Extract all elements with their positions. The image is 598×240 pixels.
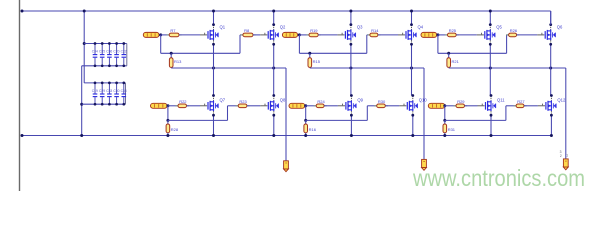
wire top bus to Q5 drain [489, 11, 491, 25]
transistor Q4 [398, 23, 424, 45]
wire R31 to bottom bus [444, 133, 446, 136]
svg-text:R13: R13 [174, 59, 182, 64]
resistor R29 [453, 104, 467, 108]
wire gate link A [299, 52, 366, 54]
svg-text:Q9: Q9 [357, 98, 363, 103]
capacitor C19 [92, 82, 98, 106]
svg-text:R22: R22 [179, 99, 187, 104]
inductor L1 [143, 32, 159, 37]
wire output drop 3 [565, 68, 567, 159]
inductor L3 [421, 32, 437, 37]
node L5 output junction [304, 104, 307, 107]
wire R7 to Q1 gate [179, 34, 200, 36]
resistor R21 [447, 58, 451, 68]
node top bus left end [21, 10, 24, 13]
svg-text:R16: R16 [309, 127, 317, 132]
node Q9 source on bus [350, 134, 353, 137]
wire gate link up-leg [506, 35, 508, 53]
transistor Q12 [538, 94, 566, 117]
wire cap group1 right side [126, 44, 128, 66]
svg-text:R26: R26 [510, 28, 518, 33]
svg-text:R30: R30 [378, 99, 386, 104]
wire Q10 source to bus [412, 115, 414, 135]
node Q2 drain on bus [272, 10, 275, 13]
node link tap [166, 119, 169, 122]
wire R29 to Q11 gate [465, 105, 478, 107]
capacitor C36 [106, 42, 112, 67]
wire tap stub [448, 53, 450, 57]
svg-text:Q3: Q3 [357, 24, 363, 29]
wire gate link [168, 119, 228, 121]
svg-text:R7: R7 [170, 28, 176, 33]
wire gate link up-leg [227, 106, 229, 121]
resistor R25 [445, 33, 459, 37]
wire Q7 source to bus [213, 115, 215, 135]
wire cap-bank left drop [81, 66, 83, 136]
wire Q9 source to bus [350, 115, 352, 135]
node Q11 source on bus [490, 134, 493, 137]
wire top bus [22, 10, 551, 12]
svg-text:2: 2 [560, 154, 562, 158]
svg-text:Q6: Q6 [557, 24, 563, 29]
wire gate link up-leg [366, 106, 368, 121]
sheet border line [19, 0, 21, 191]
wire gate link [445, 119, 506, 121]
svg-text:R23: R23 [239, 99, 247, 104]
svg-text:R28: R28 [171, 127, 179, 132]
wire gate link A [438, 52, 507, 54]
wire R28 to bottom bus [167, 133, 169, 136]
connector J2 [422, 159, 427, 170]
wire corner to R27 [506, 105, 516, 107]
wire Q8 source to bus [273, 115, 275, 135]
transistor Q8 [260, 94, 286, 117]
wire node to R24 [306, 105, 317, 107]
svg-text:R21: R21 [452, 59, 460, 64]
resistor R8 [240, 33, 255, 37]
node Q3 drain on bus [349, 10, 352, 13]
node Q3 source on rail [349, 67, 352, 70]
wire cap-bank feed from top bus [83, 11, 85, 83]
svg-text:R14: R14 [371, 28, 379, 33]
resistor R23 [236, 104, 250, 108]
wire node to R7 [161, 34, 170, 36]
node gate-source resistor tap [170, 52, 173, 55]
node bottom bus left end [21, 134, 24, 137]
wire source rail B [310, 67, 424, 69]
resistor R31 [443, 124, 447, 133]
wire cap group2 bottom rail [82, 103, 126, 105]
svg-text:C29: C29 [99, 89, 105, 93]
wire Q5 source down to lower stage [489, 44, 491, 95]
node L6 output junction [443, 104, 446, 107]
node Q1 source on rail [212, 67, 215, 70]
transistor Q5 [477, 23, 503, 45]
node L1 output junction [159, 33, 162, 36]
wire cap group2 top rail [84, 82, 125, 84]
wire gate link up-leg [505, 106, 507, 121]
svg-text:www.cntronics.com: www.cntronics.com [412, 165, 585, 191]
resistor R26 [506, 33, 519, 37]
svg-text:C22: C22 [121, 50, 127, 54]
svg-text:C35: C35 [99, 50, 105, 54]
wire corner to R26 [507, 34, 509, 36]
wire Q6 source down to lower stage [550, 44, 552, 95]
svg-text:C20: C20 [113, 50, 119, 54]
wire gate link A [161, 52, 240, 54]
svg-text:Q4: Q4 [418, 24, 424, 29]
wire node to R29 [445, 105, 456, 107]
svg-text:C36: C36 [106, 50, 112, 54]
node Q8 source on bus [272, 134, 275, 137]
svg-text:R31: R31 [448, 127, 456, 132]
svg-text:1: 1 [566, 154, 568, 158]
capacitor C22 [121, 42, 127, 67]
transistor Q11 [478, 94, 506, 117]
wire R27 to Q12 gate [524, 105, 538, 107]
node cap-bank top-rail tap [83, 42, 86, 45]
wire top bus to Q2 drain [273, 11, 275, 25]
capacitor C30 [113, 82, 119, 106]
wire link to R28 [167, 120, 169, 124]
capacitor C38 [121, 82, 127, 106]
wire node to R19 [299, 34, 309, 36]
node Q4 source on rail [410, 67, 413, 70]
capacitor C20 [113, 42, 119, 67]
wire node to R22 [168, 105, 178, 107]
node Q7 source on bus [212, 134, 215, 137]
transistor Q6 [537, 23, 563, 45]
svg-text:R8: R8 [244, 28, 250, 33]
wire corner to R8 [240, 34, 243, 36]
resistor R13 [169, 58, 173, 68]
inductor L2 [282, 32, 297, 37]
node R16 on bus [304, 134, 307, 137]
wire Q11 source to bus [490, 115, 492, 135]
node Q10 source on bus [411, 134, 414, 137]
resistor R27 [514, 104, 527, 108]
inductor L5 [289, 103, 305, 108]
wire corner to R14 [367, 34, 370, 36]
svg-text:Q12: Q12 [557, 98, 566, 103]
node L2 output junction [298, 33, 301, 36]
connector J3 [563, 159, 568, 170]
wire gate link [306, 119, 368, 121]
resistor R22 [175, 104, 189, 108]
wire output drop 1 [285, 68, 287, 161]
wire gate-drive down-leg [444, 106, 446, 121]
wire Q2 source down to lower stage [273, 44, 275, 95]
wire bottom bus [22, 135, 551, 137]
inductor L6 [428, 103, 445, 108]
node Q6 source on rail [549, 67, 552, 70]
svg-text:R25: R25 [449, 28, 457, 33]
svg-text:Q7: Q7 [220, 98, 226, 103]
resistor R15 [308, 58, 312, 68]
svg-text:R19: R19 [310, 28, 318, 33]
transistor Q1 [200, 23, 226, 45]
transistor Q7 [200, 94, 226, 117]
svg-text:Q10: Q10 [419, 98, 428, 103]
wire source rail B [171, 67, 286, 69]
resistor R19 [306, 33, 320, 37]
node Q4 drain on bus [410, 10, 413, 13]
wire Q1 source down to lower stage [213, 44, 215, 95]
svg-text:Q8: Q8 [280, 98, 286, 103]
node gate-source resistor tap [447, 52, 450, 55]
wire node to R25 [438, 34, 448, 36]
wire cap group1 top rail [84, 43, 127, 45]
resistor R24 [314, 104, 327, 108]
wire gate-drive down-leg [298, 35, 300, 53]
wire R24 to Q9 gate [324, 105, 338, 107]
svg-text:Q11: Q11 [497, 98, 505, 103]
wire R30 to Q10 gate [385, 105, 399, 107]
wire top bus right corner [550, 11, 552, 25]
transistor Q3 [337, 23, 363, 45]
node link tap [304, 119, 307, 122]
svg-text:Q1: Q1 [220, 24, 226, 29]
wire link to R31 [444, 120, 446, 124]
wire L1 to node [159, 34, 162, 36]
wire cap group1 bottom rail [82, 65, 127, 67]
svg-text:R15: R15 [313, 59, 321, 64]
svg-text:C19: C19 [92, 89, 98, 93]
wire gate link up-leg [366, 35, 368, 53]
capacitor C33 [106, 82, 112, 106]
wire source rail B [449, 67, 566, 69]
wire gate-drive down-leg [437, 35, 439, 53]
wire R25 to Q5 gate [456, 34, 477, 36]
wire R23 to Q8 gate [247, 105, 260, 107]
wire gate link up-leg [239, 35, 241, 53]
node Q1 drain on bus [212, 10, 215, 13]
transistor Q10 [399, 94, 427, 117]
wire top bus to Q4 drain [411, 11, 413, 25]
wire gate-drive down-leg [167, 106, 169, 121]
node R31 on bus [443, 134, 446, 137]
wire R22 to Q7 gate [187, 105, 201, 107]
wire top bus to Q1 drain [213, 11, 215, 25]
capacitor C35 [99, 42, 105, 67]
transistor Q2 [260, 23, 286, 45]
svg-text:R29: R29 [457, 99, 465, 104]
node Q12 source on bus [550, 134, 553, 137]
svg-text:C33: C33 [106, 89, 112, 93]
node gate-source resistor tap [308, 52, 311, 55]
wire gate-drive down-leg [305, 106, 307, 121]
svg-text:C38: C38 [121, 89, 127, 93]
node L4 output junction [166, 104, 169, 107]
transistor Q9 [338, 94, 364, 117]
wire R26 to Q6 gate [517, 34, 538, 36]
wire Q3 source down to lower stage [350, 44, 352, 95]
node Q5 drain on bus [489, 10, 492, 13]
node Q5 source on rail [489, 67, 492, 70]
capacitor C29 [99, 82, 105, 106]
node R28 on bus [166, 134, 169, 137]
wire tap stub [170, 53, 172, 57]
connector J1 [284, 161, 289, 172]
wire top bus to Q3 drain [350, 11, 352, 25]
wire L2 to node [298, 34, 301, 36]
wire cap group2 right side [125, 83, 127, 104]
node L3 output junction [436, 33, 439, 36]
wire R19 to Q3 gate [318, 34, 337, 36]
svg-text:C34: C34 [92, 50, 98, 54]
wire Q12 source to bus [550, 115, 552, 135]
wire Q4 source down to lower stage [411, 44, 413, 95]
wire tap stub [309, 53, 311, 57]
wire output drop 2 [423, 68, 425, 159]
resistor R7 [167, 33, 182, 37]
resistor R14 [367, 33, 380, 37]
wire link to R16 [305, 120, 307, 124]
resistor R16 [304, 124, 308, 133]
wire R14 to Q4 gate [378, 34, 398, 36]
wire R16 to bottom bus [305, 133, 307, 136]
inductor L4 [151, 103, 168, 108]
wire L3 to node [437, 34, 439, 36]
svg-text:R27: R27 [517, 99, 525, 104]
node Q2 source on rail [272, 67, 275, 70]
wire R8 to Q2 gate [253, 34, 260, 36]
capacitor C34 [92, 42, 98, 67]
wire corner to R30 [367, 105, 376, 107]
wire corner to R23 [228, 105, 239, 107]
wire top bus to Q6 drain [550, 11, 552, 25]
node link tap [443, 119, 446, 122]
wire gate-drive down-leg [160, 35, 162, 53]
svg-text:R24: R24 [317, 99, 325, 104]
resistor R30 [374, 104, 388, 108]
svg-text:Q2: Q2 [280, 24, 286, 29]
svg-text:Q5: Q5 [496, 24, 502, 29]
resistor R28 [166, 124, 170, 133]
svg-text:C30: C30 [113, 89, 119, 93]
